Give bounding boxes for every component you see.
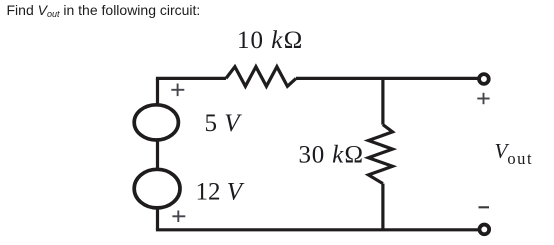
output polarity plus at top right terminal	[477, 93, 489, 104]
wire: bottom horizontal return	[156, 228, 479, 231]
svg-text:10 kΩ: 10 kΩ	[237, 27, 304, 54]
voltage source V1 5 V (circle symbol)	[134, 105, 178, 140]
terminal: open circle, bottom right output node	[479, 225, 489, 235]
title text: Find Vout in the following circuit:	[7, 2, 201, 19]
svg-text:30 kΩ: 30 kΩ	[299, 142, 365, 169]
polarity plus of source V1	[171, 84, 184, 97]
wire: left vertical branch (sources branch)	[156, 78, 159, 229]
resistor R1 10 kOhm (horizontal zigzag)	[226, 67, 296, 87]
resistor R2 30 kOhm (vertical zigzag)	[368, 125, 392, 184]
output polarity minus at bottom right terminal	[479, 206, 490, 208]
wire: top horizontal, left segment from top-left corner to R1	[156, 77, 226, 80]
svg-text:5 V: 5 V	[205, 110, 243, 137]
wire: R2 bottom lead to bottom wire junction	[381, 184, 384, 230]
wire: R2 top lead from top node junction	[381, 78, 384, 124]
svg-text:12 V: 12 V	[196, 179, 245, 206]
wire: top horizontal, right segment from R1 to output node	[296, 77, 479, 80]
svg-text:Vout: Vout	[495, 139, 534, 168]
polarity plus of source V2	[172, 211, 185, 223]
terminal: open circle, top right output node	[479, 74, 489, 84]
voltage source V2 12 V (circle symbol)	[134, 169, 180, 208]
